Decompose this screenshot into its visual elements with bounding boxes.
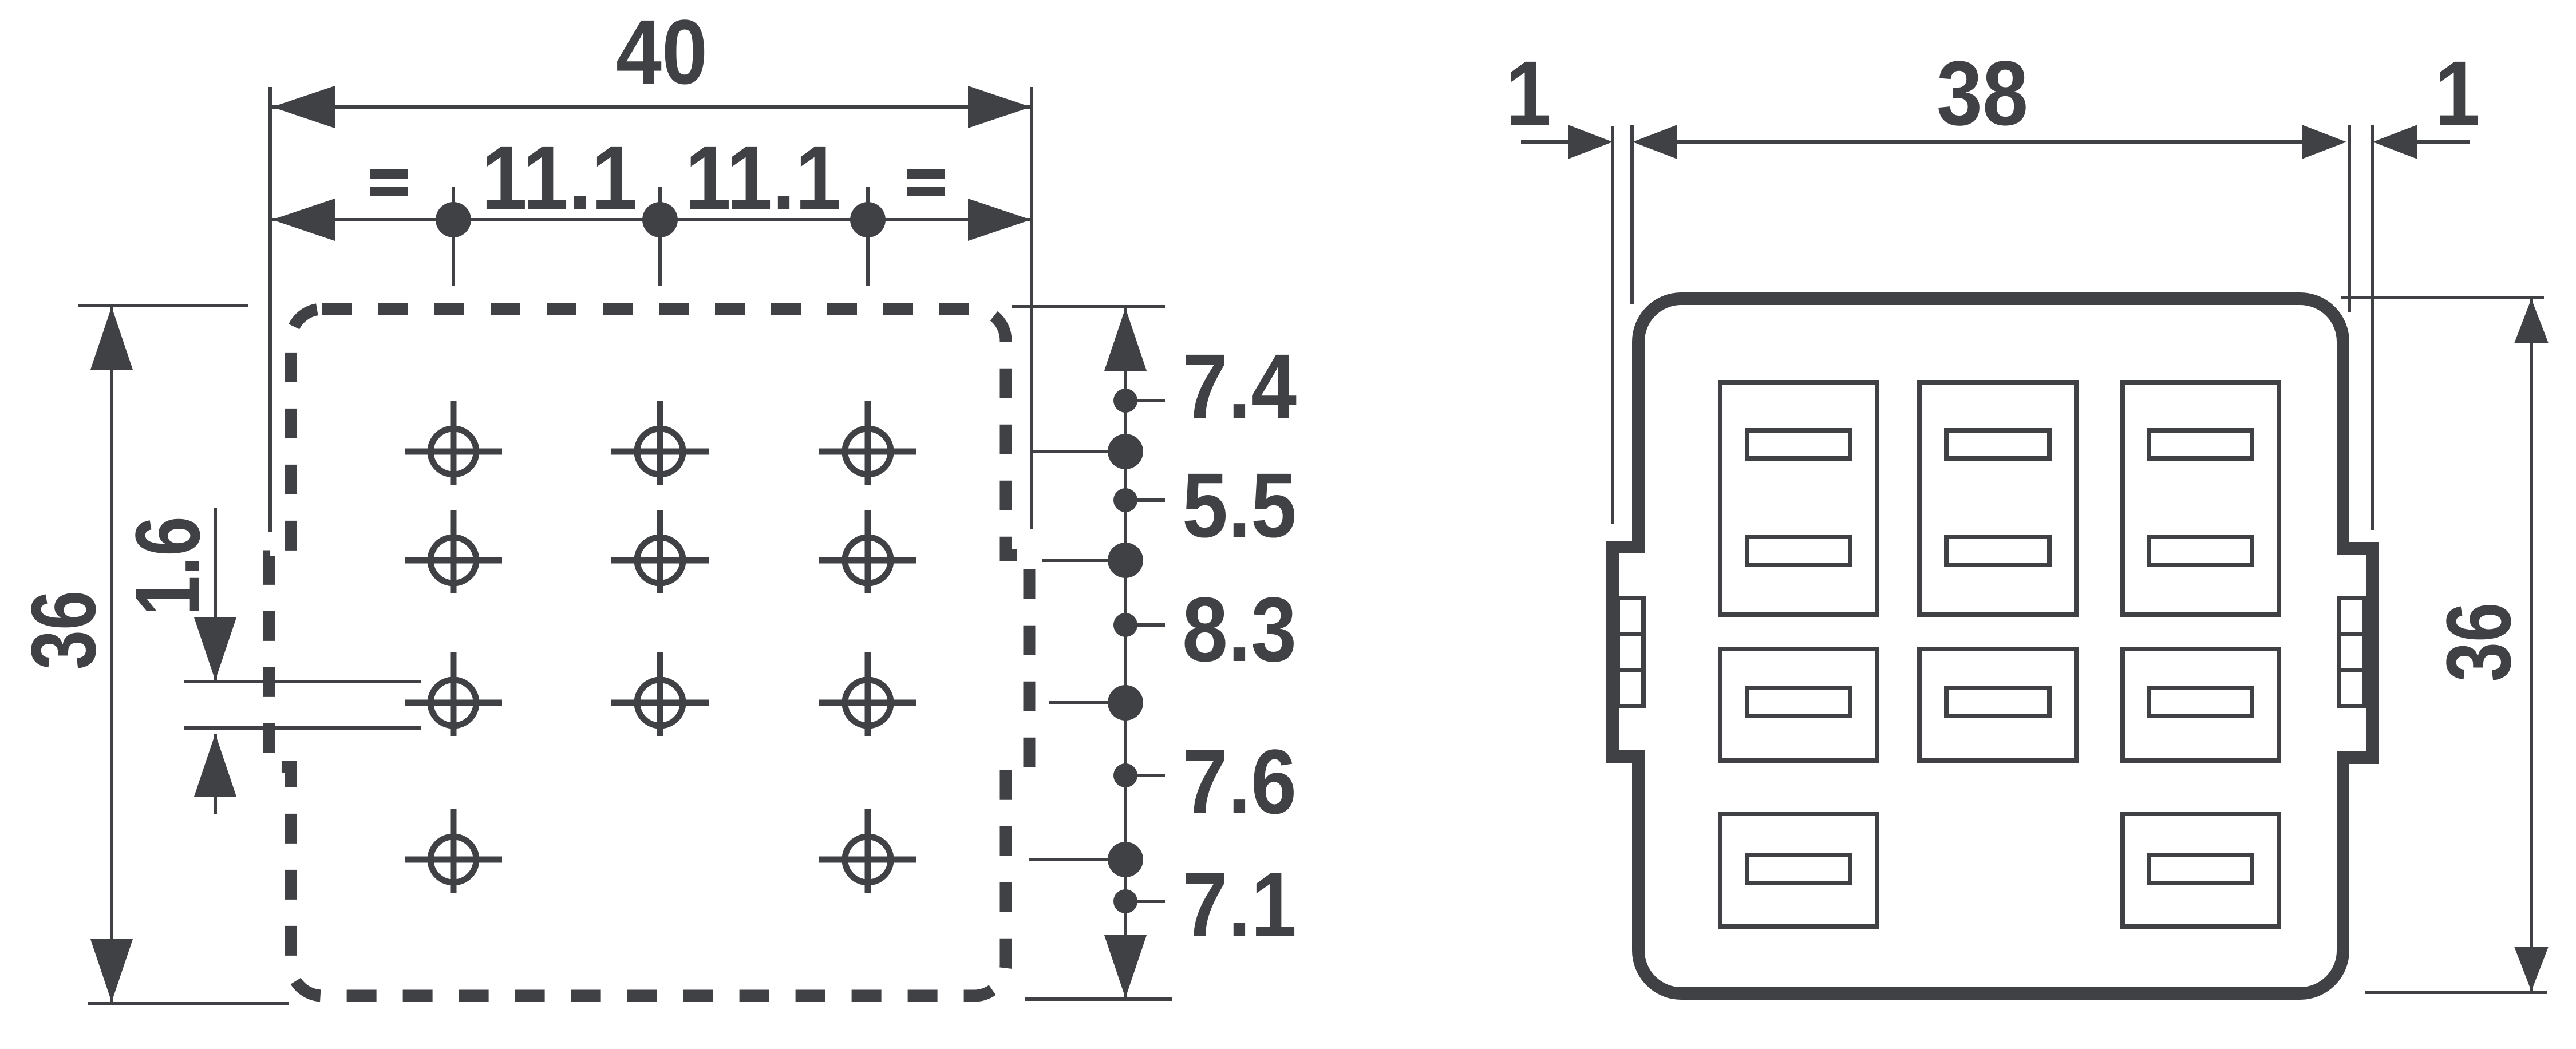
pin hole r2 c1: [405, 510, 502, 593]
relay body outline with side latch tabs: [1613, 299, 2373, 993]
chain large dots at pin rows: [1108, 434, 1143, 469]
svg-text:1.6: 1.6: [117, 516, 219, 615]
pin hole r1 c3: [819, 401, 916, 485]
pin hole r3 c3: [819, 652, 916, 736]
top dimension lines: [1521, 140, 1569, 144]
dim 36 left: top tick: [78, 304, 248, 307]
svg-text:1: 1: [1506, 42, 1551, 145]
equals sign left: [370, 169, 408, 179]
pin hole r3 c2: [611, 652, 709, 736]
svg-text:40: 40: [616, 1, 708, 104]
chain line: [1124, 307, 1127, 999]
svg-text:1: 1: [2435, 42, 2480, 145]
pin pocket middle col 1: [1720, 649, 1877, 761]
1.6 lower reference line: [184, 726, 421, 730]
1.6 upper reference line: [184, 680, 421, 683]
chain top tick: [1012, 305, 1165, 308]
extension line left of 40 dim: [268, 87, 272, 532]
dim 1.6 pin thickness: [214, 508, 217, 680]
dim line 11.1 pitch: [272, 218, 1031, 221]
dim 36 left: bottom tick: [88, 1002, 289, 1005]
svg-text:5.5: 5.5: [1182, 454, 1297, 557]
chain row connector lines: [1033, 450, 1125, 453]
dim 36 right: top tick: [2341, 296, 2544, 299]
right latch detail (3 cells): [2339, 598, 2365, 706]
pin pocket middle col 2: [1919, 649, 2076, 761]
dim line 40: [272, 105, 1031, 109]
svg-text:38: 38: [1937, 42, 2028, 145]
dim 36 right: bottom tick: [2365, 991, 2547, 994]
pin hole r2 c2: [611, 510, 709, 593]
pin hole r4 c3: [819, 809, 916, 893]
pin pocket top col 1: [1720, 382, 1877, 615]
dim 36 left: dimension line: [110, 306, 113, 1003]
chain bottom tick: [1025, 997, 1172, 1001]
equals sign right: [907, 169, 945, 179]
svg-text:36: 36: [2428, 603, 2530, 682]
pin hole r3 c1: [405, 652, 502, 736]
svg-text:11.1: 11.1: [685, 127, 841, 229]
dim 36 right: dimension line: [2530, 298, 2533, 992]
pin hole r4 c1: [405, 809, 502, 893]
svg-text:7.6: 7.6: [1182, 731, 1297, 833]
dashed relay outline with side tabs: [269, 309, 1029, 996]
left latch detail (3 cells): [1618, 598, 1643, 706]
pin pocket middle col 3: [2123, 649, 2279, 761]
svg-text:36: 36: [13, 591, 114, 670]
pin pocket bottom col 3: [2123, 814, 2279, 927]
extension lines for 1 / 38 / 1: [1611, 126, 1614, 524]
pin hole r1 c1: [405, 401, 502, 485]
pin pocket top col 2: [1919, 382, 2076, 615]
pin hole r2 c3: [819, 510, 916, 593]
chain small dots with label ticks: [1113, 389, 1137, 413]
pad column marker dots on 11.1 dim line: [452, 187, 455, 286]
svg-text:8.3: 8.3: [1182, 579, 1297, 681]
pin pocket bottom col 1: [1720, 814, 1877, 927]
svg-text:7.1: 7.1: [1182, 854, 1297, 956]
svg-text:7.4: 7.4: [1182, 335, 1297, 438]
pin pocket top col 3: [2123, 382, 2279, 615]
svg-text:11.1: 11.1: [481, 127, 637, 229]
pin hole r1 c2: [611, 401, 709, 485]
extension line right of 40 dim: [1030, 87, 1033, 529]
